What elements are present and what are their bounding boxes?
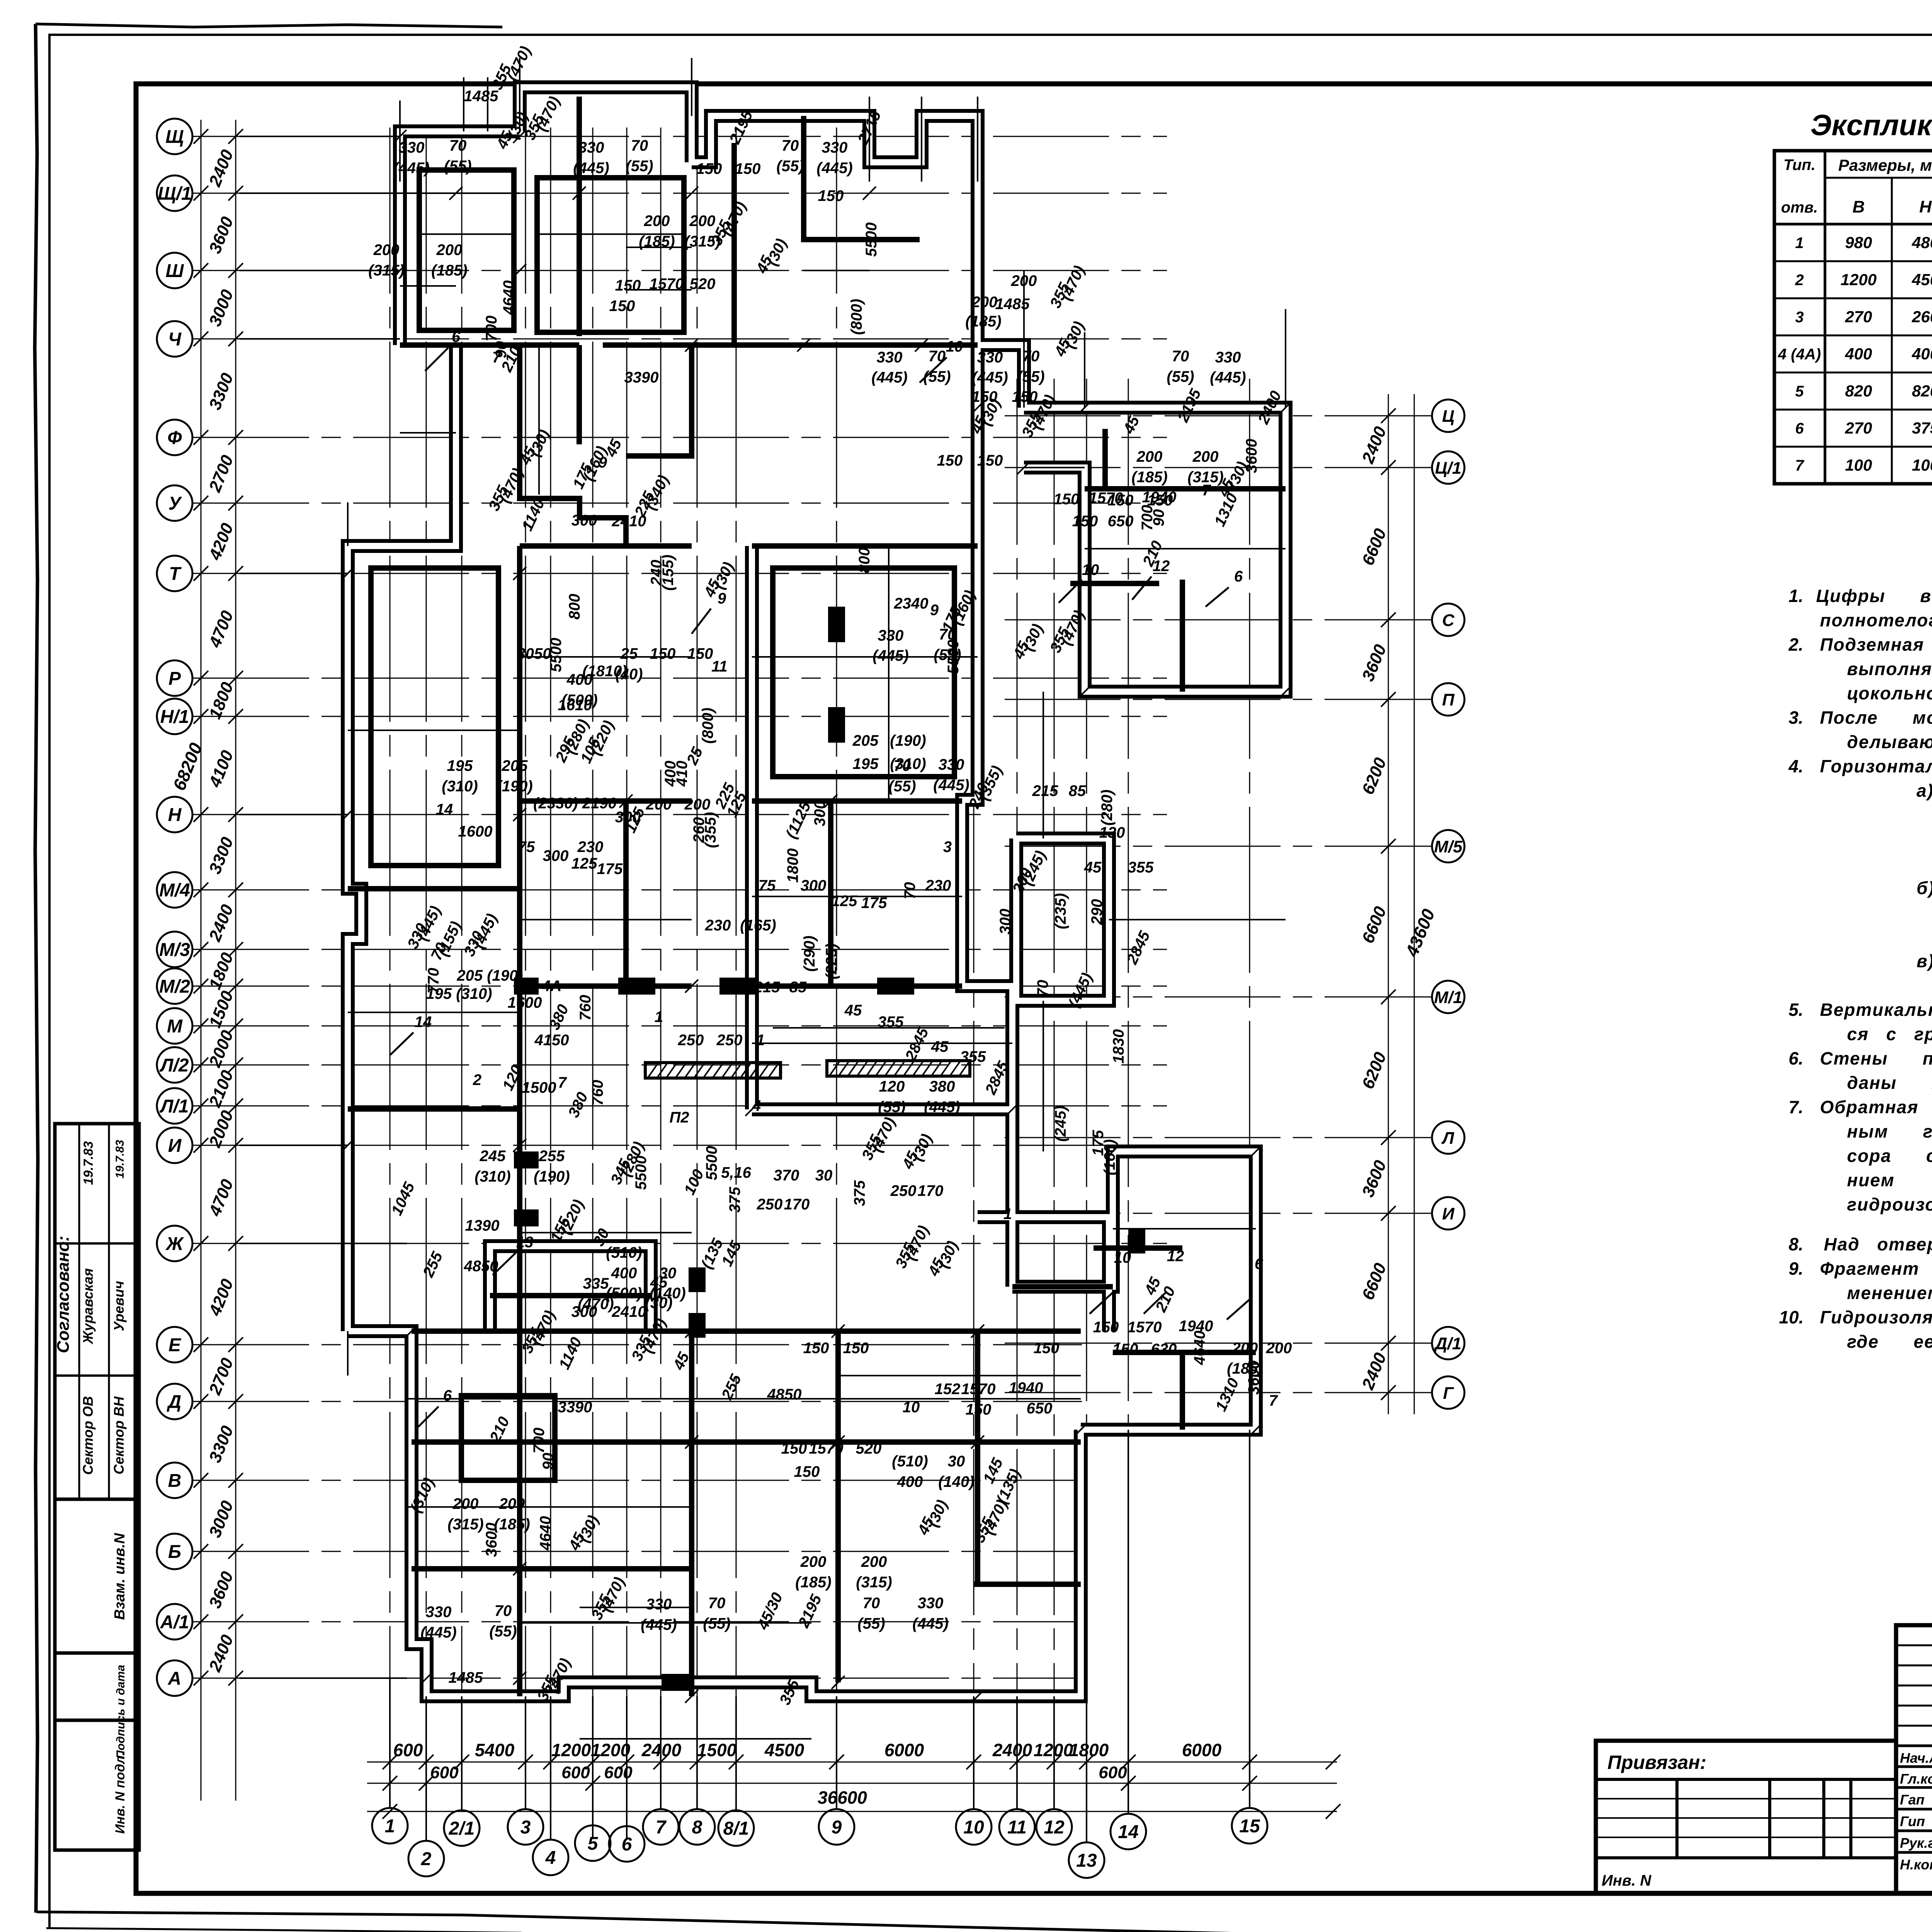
svg-text:150: 150 — [843, 1340, 869, 1357]
svg-text:330: 330 — [918, 1595, 944, 1612]
svg-text:4: 4 — [545, 1848, 556, 1868]
svg-text:(185): (185) — [965, 313, 1001, 330]
axis 1 circle — [372, 1808, 408, 1844]
svg-text:5400: 5400 — [475, 1740, 515, 1760]
svg-text:200: 200 — [861, 1553, 887, 1570]
wall central small rooms — [623, 801, 629, 986]
wall dimension ticks — [341, 130, 1292, 1703]
svg-text:150: 150 — [735, 160, 761, 177]
svg-text:(55): (55) — [489, 1623, 517, 1640]
svg-text:2: 2 — [473, 1071, 481, 1088]
axis 4 circle — [533, 1840, 568, 1875]
svg-text:3600: 3600 — [1245, 1361, 1262, 1395]
wall lower tower door — [1094, 1245, 1182, 1251]
axis Г circle — [1432, 1376, 1464, 1409]
svg-text:А: А — [168, 1668, 182, 1689]
svg-text:205 (190): 205 (190) — [456, 967, 523, 984]
outer wall right wing room — [978, 1217, 1109, 1331]
title block signature rows — [1900, 1749, 1932, 1873]
svg-text:400: 400 — [611, 1265, 637, 1282]
svg-text:980: 980 — [1845, 233, 1872, 252]
svg-text:9.: 9. — [1789, 1259, 1803, 1279]
axis Р circle — [157, 660, 192, 696]
svg-text:330: 330 — [426, 1604, 452, 1621]
extra scattered labels — [436, 160, 1205, 1506]
outer wall courtyard left — [745, 546, 759, 1109]
wall bottom wing protrusion interior — [490, 1293, 651, 1298]
svg-text:(40): (40) — [615, 666, 643, 683]
svg-text:9: 9 — [599, 454, 607, 471]
svg-text:1: 1 — [1795, 235, 1804, 252]
svg-text:даны на листах 017, 018.: даны на листах 017, 018. — [1847, 1073, 1932, 1093]
svg-text:(315): (315) — [856, 1574, 892, 1591]
svg-text:1600: 1600 — [458, 823, 493, 840]
svg-text:800: 800 — [566, 594, 583, 620]
svg-text:(160): (160) — [1101, 1139, 1118, 1175]
svg-text:70: 70 — [708, 1595, 726, 1612]
svg-text:1485: 1485 — [995, 296, 1030, 313]
svg-text:5500: 5500 — [548, 638, 565, 672]
svg-text:1200: 1200 — [591, 1740, 631, 1760]
wall central small rooms2 — [828, 801, 833, 986]
axis 7 circle — [643, 1809, 679, 1845]
svg-text:1: 1 — [1003, 1206, 1012, 1223]
svg-text:в) ГИ№3- по стенам внутренне: в) ГИ№3- по стенам внутреннего дворика н… — [1917, 951, 1932, 971]
axis Ф circle — [157, 420, 192, 455]
svg-text:(185): (185) — [639, 233, 675, 250]
wall bottom wing interior v2 — [689, 1331, 694, 1696]
svg-text:(30): (30) — [645, 1294, 672, 1311]
svg-text:2400: 2400 — [992, 1740, 1032, 1760]
axis Щ/1 circle — [157, 175, 192, 211]
svg-text:М: М — [167, 1016, 183, 1037]
svg-text:(315): (315) — [447, 1516, 483, 1533]
svg-text:1570: 1570 — [650, 276, 684, 293]
svg-text:200: 200 — [644, 213, 670, 230]
svg-text:1940: 1940 — [1142, 489, 1177, 506]
svg-text:Согласовано:: Согласовано: — [54, 1236, 73, 1353]
leader lines — [390, 348, 1250, 1430]
svg-text:200: 200 — [452, 1495, 479, 1512]
svg-text:Щ/1: Щ/1 — [158, 184, 192, 204]
axis У circle — [157, 485, 192, 521]
svg-text:700: 700 — [531, 1428, 548, 1454]
svg-text:100: 100 — [1912, 456, 1932, 474]
svg-text:(140): (140) — [938, 1473, 974, 1490]
axis Ц circle — [1432, 400, 1464, 432]
svg-text:330: 330 — [877, 349, 903, 366]
svg-text:3050: 3050 — [517, 645, 551, 662]
svg-text:Ч: Ч — [168, 329, 182, 350]
wall corridor top — [626, 345, 692, 456]
svg-text:Гап: Гап — [1900, 1792, 1925, 1808]
svg-text:70: 70 — [631, 137, 648, 154]
svg-text:Ш: Ш — [166, 261, 184, 281]
wall left wing interior1 — [348, 886, 520, 891]
svg-text:6000: 6000 — [884, 1740, 924, 1760]
svg-text:ся с грунтом, запроектирована: ся с грунтом, запроектирована окрасочной… — [1847, 1024, 1932, 1044]
svg-text:70: 70 — [901, 882, 918, 900]
svg-text:Ц: Ц — [1442, 407, 1454, 426]
svg-text:600: 600 — [430, 1763, 459, 1782]
svg-text:Подпись и дата: Подпись и дата — [114, 1665, 127, 1759]
svg-text:70: 70 — [1022, 348, 1040, 365]
svg-text:7: 7 — [1202, 482, 1211, 499]
svg-text:70: 70 — [1034, 980, 1051, 997]
svg-text:13: 13 — [516, 1234, 534, 1251]
svg-text:Инв. N подл.: Инв. N подл. — [113, 1752, 128, 1834]
axis 13 circle — [1069, 1842, 1104, 1878]
svg-text:355: 355 — [960, 1048, 986, 1065]
svg-text:2: 2 — [421, 1849, 432, 1869]
openings table left rows — [1777, 233, 1932, 474]
outer wall right room — [1016, 838, 1109, 1001]
axis 5 circle — [575, 1825, 611, 1861]
svg-text:М/2: М/2 — [159, 976, 190, 997]
svg-text:300: 300 — [811, 801, 828, 827]
svg-text:(445): (445) — [933, 777, 969, 794]
axis М/2 circle — [157, 968, 192, 1004]
wall lower tower interior — [1113, 1350, 1256, 1355]
svg-text:150: 150 — [1093, 1319, 1119, 1336]
svg-text:6: 6 — [1234, 568, 1243, 585]
scattered plan dimension labels — [368, 44, 1292, 1708]
axis 14 circle — [1111, 1814, 1146, 1849]
svg-text:1570: 1570 — [1089, 490, 1123, 507]
svg-text:36600: 36600 — [818, 1787, 867, 1808]
svg-text:200: 200 — [499, 1495, 525, 1512]
svg-text:200: 200 — [971, 294, 998, 311]
svg-text:А/1: А/1 — [160, 1612, 189, 1633]
svg-text:215: 215 — [1032, 782, 1058, 799]
svg-text:330: 330 — [977, 349, 1003, 366]
svg-text:(310): (310) — [442, 778, 478, 795]
wall bottom wing h2 — [412, 1566, 692, 1571]
wall central h3b — [752, 983, 962, 989]
wall top-right interior — [731, 143, 737, 348]
svg-text:С: С — [1442, 611, 1455, 630]
svg-text:90: 90 — [1150, 509, 1167, 527]
outer rough scan edge bottom — [37, 1912, 1932, 1932]
svg-text:150: 150 — [1054, 491, 1080, 508]
svg-text:Гидроизоляция заводится на: Гидроизоляция заводится на 1,5 м на прим… — [1820, 1307, 1932, 1327]
svg-text:820: 820 — [1845, 382, 1872, 400]
svg-text:230: 230 — [577, 838, 604, 855]
svg-text:(800): (800) — [699, 707, 716, 743]
svg-text:(310): (310) — [474, 1168, 510, 1185]
svg-text:Горизонтальная гидроизоляция: Горизонтальная гидроизоляция выполняется… — [1820, 756, 1932, 776]
outer wall central right — [962, 345, 1012, 1109]
svg-text:150: 150 — [781, 1440, 807, 1457]
svg-text:230: 230 — [925, 877, 951, 894]
svg-text:(445): (445) — [871, 369, 907, 386]
svg-text:Обратная засыпка пазух (в ме: Обратная засыпка пазух (в месте подвала)… — [1820, 1097, 1932, 1117]
svg-text:10: 10 — [963, 1817, 984, 1838]
svg-text:200: 200 — [1266, 1340, 1292, 1357]
svg-text:Над отверстиями шириной 25: Над отверстиями шириной 250÷600 мм проло… — [1824, 1234, 1932, 1254]
svg-text:выполняется из бетона М100.: выполняется из бетона М100. Марка бетона… — [1847, 659, 1932, 679]
svg-text:3: 3 — [1795, 309, 1804, 326]
svg-text:(280): (280) — [1099, 789, 1116, 825]
svg-text:2: 2 — [1795, 272, 1804, 289]
wall left wing room — [371, 568, 498, 866]
svg-text:700: 700 — [483, 316, 500, 342]
svg-text:сора слоями по 200 мм с т: сора слоями по 200 мм с тщательным посло… — [1847, 1146, 1932, 1166]
axis Д/1 circle — [1432, 1327, 1464, 1359]
svg-text:200: 200 — [689, 213, 716, 230]
axis 11 circle — [999, 1809, 1035, 1845]
wall central room1 — [773, 568, 954, 777]
svg-text:5,16: 5,16 — [721, 1164, 752, 1181]
svg-text:820: 820 — [1912, 382, 1932, 400]
svg-text:30: 30 — [948, 1453, 965, 1470]
svg-text:650: 650 — [1027, 1400, 1053, 1417]
axis 10 circle — [956, 1809, 992, 1845]
svg-text:450: 450 — [1912, 270, 1932, 289]
axis Ж circle — [157, 1226, 192, 1261]
svg-text:(55): (55) — [703, 1615, 730, 1632]
svg-text:150: 150 — [615, 277, 641, 294]
openings table left part — [1774, 151, 1932, 484]
svg-text:7: 7 — [1269, 1392, 1278, 1409]
svg-text:200: 200 — [646, 796, 672, 813]
svg-text:менением панелей дан на ли: менением панелей дан на листе 013. — [1847, 1283, 1932, 1303]
wall top blocks bottom band — [400, 342, 579, 348]
svg-text:(190): (190) — [890, 732, 926, 749]
svg-text:200: 200 — [684, 796, 711, 813]
svg-text:Г: Г — [1443, 1384, 1454, 1403]
svg-text:Размеры, мм.: Размеры, мм. — [1838, 156, 1932, 174]
svg-text:Гл.констр: Гл.констр — [1900, 1771, 1932, 1787]
svg-text:Н.контр.: Н.контр. — [1900, 1857, 1932, 1872]
svg-text:(225): (225) — [823, 943, 840, 979]
svg-text:195: 195 — [853, 755, 879, 772]
axis М circle — [157, 1008, 192, 1044]
right dimension chain lines — [1388, 394, 1389, 1414]
svg-text:300: 300 — [571, 1303, 597, 1320]
svg-text:Вертикальная гидроизоляция (: Вертикальная гидроизоляция (ГИ№4) поверх… — [1820, 1000, 1932, 1020]
svg-text:7.: 7. — [1789, 1097, 1803, 1117]
svg-text:330: 330 — [878, 627, 904, 644]
svg-text:600: 600 — [561, 1763, 590, 1782]
svg-text:(445): (445) — [573, 160, 609, 177]
axis М/1 circle — [1432, 981, 1464, 1013]
svg-text:П2: П2 — [669, 1109, 689, 1126]
vertical axis grid lines — [390, 128, 1250, 1842]
wall top blocks bottom band2 — [603, 342, 978, 348]
svg-text:(2330) 2190: (2330) 2190 — [533, 795, 617, 812]
outer wall bottom wing left — [348, 1331, 1081, 1696]
svg-text:6: 6 — [1795, 420, 1804, 437]
svg-text:отв.: отв. — [1781, 199, 1818, 216]
svg-text:(55): (55) — [857, 1615, 885, 1632]
svg-text:70: 70 — [495, 1602, 512, 1619]
svg-text:И: И — [168, 1136, 182, 1156]
axis П circle — [1432, 683, 1464, 716]
svg-text:4640: 4640 — [500, 281, 517, 315]
svg-text:600: 600 — [393, 1740, 423, 1760]
svg-text:10: 10 — [1082, 561, 1099, 578]
axis Щ circle — [157, 119, 192, 154]
svg-text:85: 85 — [1069, 782, 1086, 799]
svg-text:200: 200 — [1136, 448, 1163, 465]
svg-text:400: 400 — [897, 1473, 923, 1490]
axis А/1 circle — [157, 1604, 192, 1639]
svg-text:2340: 2340 — [894, 595, 929, 612]
svg-text:150: 150 — [1034, 1340, 1060, 1357]
svg-text:Уревич: Уревич — [111, 1281, 127, 1331]
svg-text:В: В — [168, 1471, 182, 1491]
wall bottom wing h1 — [412, 1439, 1081, 1445]
svg-text:(55): (55) — [923, 368, 951, 385]
black wall section marks — [514, 978, 539, 995]
wall central h2 — [752, 798, 962, 804]
svg-text:400: 400 — [1845, 345, 1872, 363]
svg-text:(445): (445) — [872, 647, 908, 664]
svg-text:250: 250 — [716, 1032, 743, 1049]
svg-text:4А: 4А — [541, 978, 561, 995]
wall bottom wing h3 — [974, 1582, 1081, 1587]
outer wall top-right block — [692, 116, 1024, 408]
svg-text:600: 600 — [604, 1763, 633, 1782]
svg-text:Н: Н — [168, 805, 182, 825]
svg-text:6.: 6. — [1789, 1048, 1803, 1068]
svg-text:нием после устройств пол: нием после устройств полов и монтажа пер… — [1847, 1170, 1932, 1190]
building walls — [348, 97, 1286, 1696]
svg-text:Л/2: Л/2 — [159, 1055, 189, 1076]
svg-text:150: 150 — [687, 645, 713, 662]
svg-text:12: 12 — [1044, 1817, 1065, 1838]
axis 12 circle — [1036, 1809, 1072, 1845]
svg-text:520: 520 — [690, 276, 716, 293]
svg-text:13: 13 — [1076, 1850, 1097, 1871]
wall left wing right — [517, 546, 522, 1331]
title block signature grid — [1896, 1625, 1932, 1893]
svg-text:130: 130 — [1099, 824, 1125, 841]
svg-text:Экспликация отверстий: Экспликация отверстий — [1810, 109, 1932, 142]
wall top-center interior room — [537, 178, 684, 332]
svg-text:М/4: М/4 — [159, 880, 190, 901]
svg-text:Л: Л — [1441, 1129, 1454, 1148]
svg-text:10: 10 — [946, 338, 963, 355]
svg-text:3600: 3600 — [483, 1523, 500, 1557]
svg-text:5500: 5500 — [633, 1156, 650, 1190]
svg-text:1: 1 — [756, 1032, 765, 1049]
svg-text:150: 150 — [696, 160, 722, 177]
svg-text:Е: Е — [168, 1335, 182, 1355]
svg-text:(445): (445) — [393, 160, 429, 177]
svg-text:3390: 3390 — [624, 369, 659, 386]
svg-text:4640: 4640 — [537, 1516, 554, 1551]
svg-text:760: 760 — [589, 1080, 606, 1106]
outer wall left wing — [348, 345, 456, 1331]
svg-text:(445): (445) — [912, 1615, 948, 1632]
svg-text:6: 6 — [452, 328, 461, 345]
left dimension chain lines — [201, 120, 202, 1801]
outer wall top-center block — [520, 87, 692, 162]
wall lower tower room — [1180, 1352, 1185, 1430]
svg-text:(185): (185) — [431, 262, 467, 279]
svg-text:Привязан:: Привязан: — [1607, 1752, 1706, 1773]
svg-text:355: 355 — [878, 1014, 904, 1031]
axis 2 circle — [408, 1841, 444, 1876]
svg-text:375: 375 — [1912, 419, 1932, 437]
svg-text:Д/1: Д/1 — [1434, 1334, 1461, 1353]
svg-text:19.7.83: 19.7.83 — [81, 1141, 96, 1185]
svg-text:полнотелого кирпича и силик: полнотелого кирпича и силикатного пустот… — [1820, 610, 1932, 630]
svg-text:70: 70 — [782, 137, 799, 154]
svg-text:7: 7 — [656, 1817, 667, 1838]
svg-text:Рук.груп.: Рук.груп. — [1900, 1835, 1932, 1851]
title block left attachment box — [1596, 1741, 1896, 1893]
svg-text:30: 30 — [815, 1167, 833, 1184]
svg-text:1: 1 — [655, 1009, 663, 1026]
svg-text:Взам. инв.N: Взам. инв.N — [112, 1532, 128, 1620]
axis 3 circle — [508, 1809, 543, 1845]
svg-text:У: У — [168, 493, 182, 514]
svg-text:7: 7 — [1795, 457, 1804, 474]
svg-text:330: 330 — [822, 139, 848, 156]
wall upper tower inner room — [1102, 429, 1108, 489]
svg-text:(290): (290) — [801, 935, 818, 971]
svg-text:(800): (800) — [848, 299, 865, 335]
svg-text:10: 10 — [1114, 1249, 1131, 1266]
svg-text:Б: Б — [168, 1542, 181, 1562]
wall central interior h1 — [520, 798, 692, 804]
axis Ч circle — [157, 321, 192, 357]
axis М/3 circle — [157, 932, 192, 967]
svg-text:245: 245 — [480, 1148, 506, 1165]
svg-text:а) ГИ№1- по всем наружным и: а) ГИ№1- по всем наружным и внутренним с… — [1917, 781, 1932, 801]
wall bottom wing interior v3 — [835, 1331, 841, 1682]
svg-text:ным грунтом, без органически: ным грунтом, без органических примесей и… — [1847, 1121, 1932, 1141]
svg-text:75: 75 — [518, 838, 535, 855]
svg-text:(510): (510) — [892, 1453, 928, 1470]
svg-text:1485: 1485 — [449, 1669, 483, 1686]
svg-text:(445): (445) — [816, 160, 852, 177]
svg-text:Ф: Ф — [167, 428, 182, 448]
svg-text:где ее устройство не тре: где ее устройство не требуется. — [1847, 1332, 1932, 1352]
svg-text:(445): (445) — [924, 1099, 960, 1116]
wall central h3 — [520, 983, 692, 989]
svg-text:205: 205 — [502, 757, 528, 774]
wall bottom wing interior v1 — [517, 1331, 522, 1696]
svg-text:Сектор ОВ: Сектор ОВ — [80, 1396, 96, 1475]
svg-text:(310): (310) — [890, 755, 926, 772]
svg-text:75: 75 — [759, 877, 776, 894]
axis 8 circle — [679, 1809, 715, 1845]
svg-text:200: 200 — [436, 241, 463, 259]
svg-text:170: 170 — [918, 1182, 944, 1199]
svg-text:Фрагмент плана цоколя для: Фрагмент плана цоколя для варианта наруж… — [1820, 1259, 1932, 1279]
svg-text:(185): (185) — [1131, 469, 1167, 486]
svg-text:(510): (510) — [606, 1244, 642, 1261]
axis И circle — [157, 1128, 192, 1163]
outer wall upper tower — [1024, 408, 1286, 692]
svg-text:5500: 5500 — [945, 640, 962, 674]
wall bottom wing top2 — [752, 1328, 1081, 1334]
svg-text:290: 290 — [1088, 899, 1105, 925]
notes text — [1779, 586, 1932, 1352]
svg-text:1800: 1800 — [784, 849, 801, 883]
svg-text:1610: 1610 — [558, 697, 592, 714]
svg-text:Цифры в скобках даны для вари: Цифры в скобках даны для вариантов наруж… — [1816, 586, 1932, 606]
svg-text:150: 150 — [609, 298, 635, 315]
svg-text:5.: 5. — [1789, 1000, 1803, 1020]
wall bottom wing top — [412, 1328, 752, 1334]
svg-text:205: 205 — [852, 732, 879, 749]
svg-text:4850: 4850 — [464, 1258, 498, 1275]
